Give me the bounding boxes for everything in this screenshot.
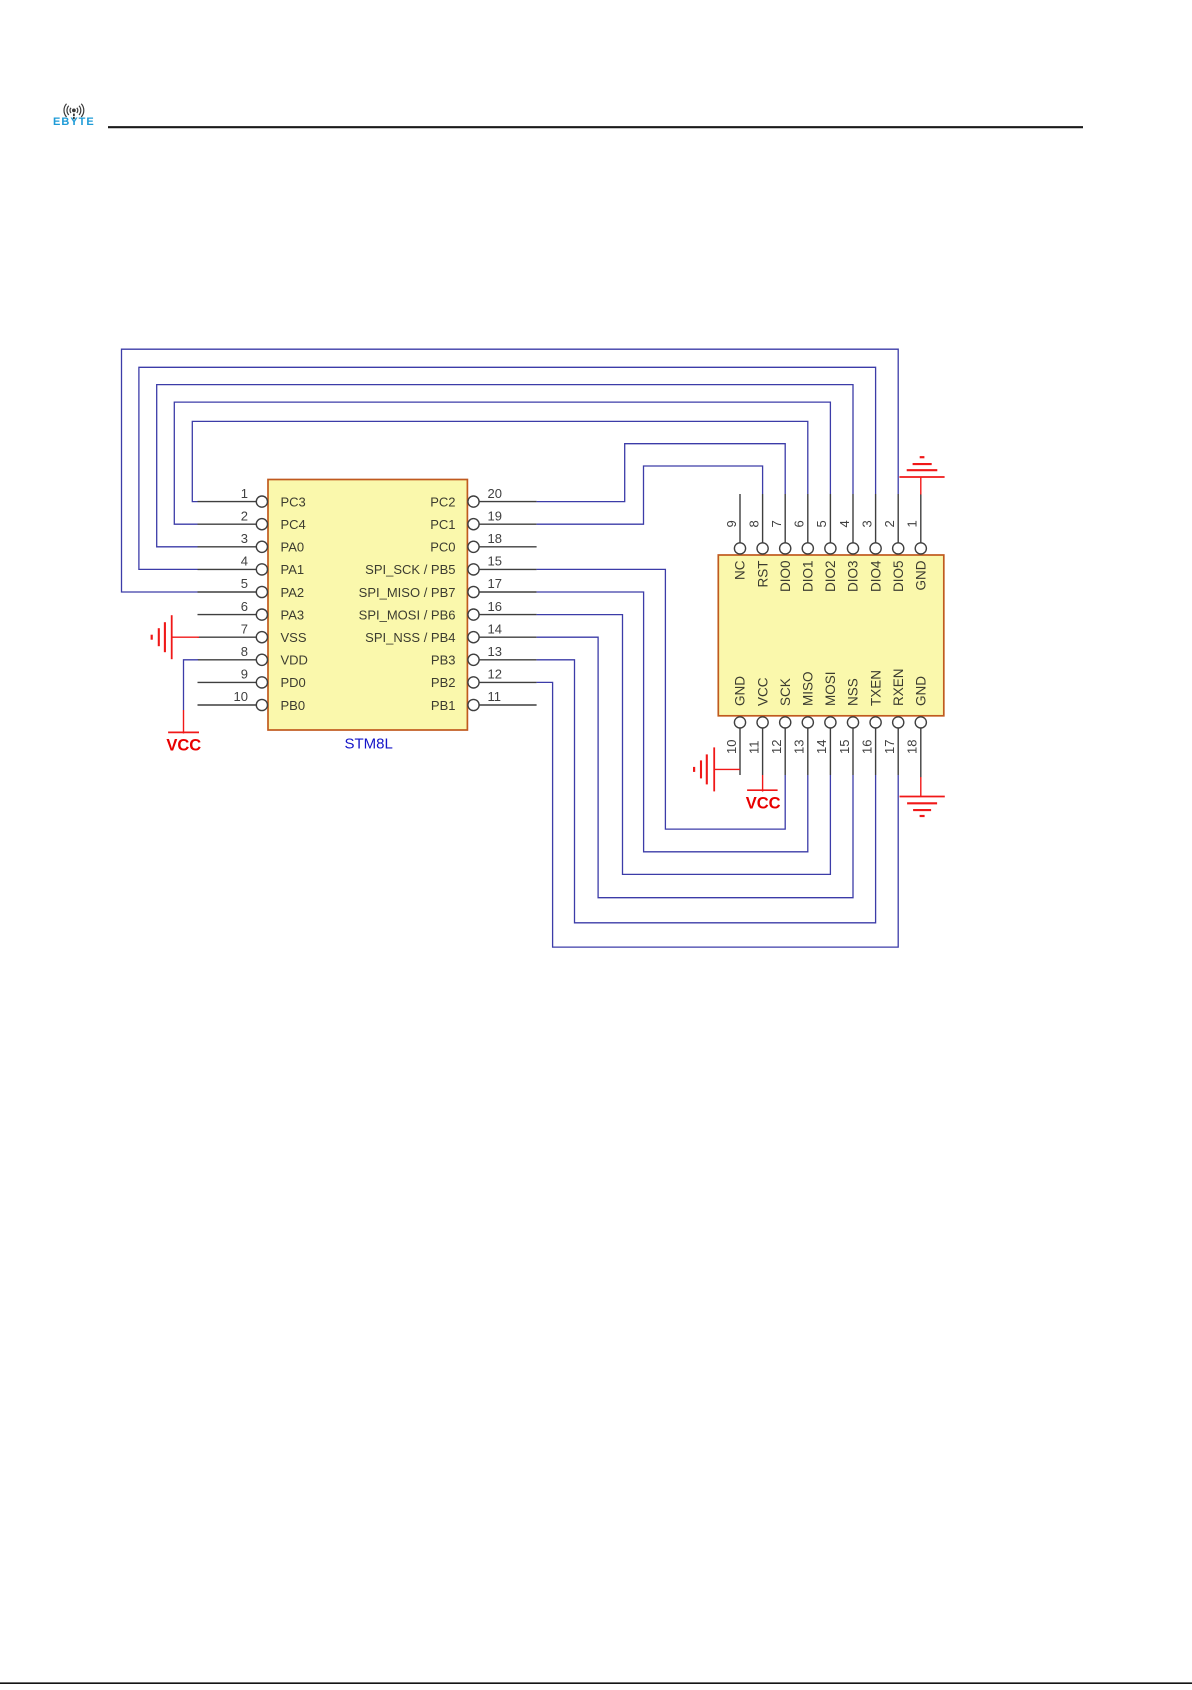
svg-text:PC3: PC3 — [281, 494, 306, 509]
svg-text:1: 1 — [905, 520, 920, 527]
svg-text:13: 13 — [792, 740, 807, 754]
svg-text:NSS: NSS — [846, 678, 861, 706]
U1 pin 10 PB0 (left) — [198, 689, 306, 713]
U1 pin 11 PB1 (right) — [431, 689, 537, 713]
U1 pin 14 PB4 (right) — [365, 621, 536, 645]
wire PA0 to DIO3 — [157, 385, 853, 547]
svg-text:NC: NC — [733, 560, 748, 580]
svg-text:PA2: PA2 — [281, 585, 305, 600]
svg-text:17: 17 — [488, 576, 502, 591]
svg-text:4: 4 — [837, 520, 852, 527]
svg-text:SPI_NSS / PB4: SPI_NSS / PB4 — [365, 630, 455, 645]
svg-text:19: 19 — [488, 508, 502, 523]
wire PC3 to DIO1 — [192, 421, 808, 501]
bottom page rule — [0, 1682, 1192, 1684]
header rule — [108, 126, 1083, 128]
U2 pin 4 DIO3 (top) — [837, 494, 861, 592]
svg-text:PA0: PA0 — [281, 540, 305, 555]
IC U2 RF module body — [718, 555, 944, 716]
U1 pin 12 PB2 (right) — [431, 667, 537, 691]
ground at U2 pin 10 GND (bottom left) — [694, 747, 740, 791]
U2 pin 13 MISO (bottom) — [792, 671, 816, 775]
svg-text:PD0: PD0 — [281, 675, 306, 690]
U2 pin 6 DIO1 (top) — [792, 494, 816, 592]
wire PC2 to DIO0 — [537, 444, 786, 502]
svg-text:TXEN: TXEN — [868, 670, 883, 706]
svg-text:10: 10 — [234, 689, 248, 704]
U2 pin 17 RXEN (bottom) — [882, 668, 906, 775]
U1 pin 15 PB5 (right) — [365, 554, 536, 578]
svg-text:16: 16 — [488, 599, 502, 614]
svg-text:11: 11 — [488, 689, 502, 704]
svg-text:12: 12 — [488, 667, 502, 682]
U1 pin 2 PC4 (left) — [198, 508, 306, 532]
svg-text:16: 16 — [859, 740, 874, 754]
svg-text:DIO4: DIO4 — [868, 560, 883, 592]
svg-text:20: 20 — [488, 486, 502, 501]
ground at U1 VSS pin 7 — [152, 615, 199, 659]
svg-text:DIO5: DIO5 — [891, 561, 906, 593]
U1 pin 3 PA0 (left) — [198, 531, 305, 555]
U1 pin 20 PC2 (right) — [430, 486, 536, 510]
svg-text:PB3: PB3 — [431, 653, 456, 668]
svg-text:PC0: PC0 — [430, 540, 455, 555]
wire SPI_NSS to NSS — [537, 637, 853, 898]
svg-text:14: 14 — [488, 621, 502, 636]
svg-text:EBYTE: EBYTE — [53, 116, 95, 128]
svg-text:DIO1: DIO1 — [801, 561, 816, 593]
svg-text:1: 1 — [241, 486, 248, 501]
ground at U2 pin 18 GND (bottom right) — [900, 775, 945, 816]
svg-text:3: 3 — [859, 520, 874, 527]
svg-text:PB0: PB0 — [281, 698, 306, 713]
U1 pin 9 PD0 (left) — [198, 667, 306, 691]
U2 pin 10 GND (bottom) — [724, 676, 748, 775]
svg-text:PA3: PA3 — [281, 607, 305, 622]
svg-text:PC1: PC1 — [430, 517, 455, 532]
svg-text:6: 6 — [792, 520, 807, 527]
svg-text:5: 5 — [241, 576, 248, 591]
svg-text:PB2: PB2 — [431, 675, 456, 690]
svg-text:DIO0: DIO0 — [778, 561, 793, 593]
svg-text:6: 6 — [241, 599, 248, 614]
svg-text:SPI_MISO / PB7: SPI_MISO / PB7 — [359, 585, 456, 600]
svg-text:SPI_SCK / PB5: SPI_SCK / PB5 — [365, 562, 455, 577]
U1 pin 5 PA2 (left) — [198, 576, 305, 600]
svg-text:VCC: VCC — [746, 794, 781, 812]
svg-text:15: 15 — [837, 740, 852, 754]
svg-text:8: 8 — [746, 520, 761, 527]
svg-text:2: 2 — [882, 520, 897, 527]
svg-text:SCK: SCK — [778, 678, 793, 706]
svg-text:4: 4 — [241, 554, 248, 569]
wire PA2 to DIO5 — [122, 349, 899, 592]
svg-text:GND: GND — [733, 676, 748, 706]
svg-text:7: 7 — [241, 621, 248, 636]
U1 pin 19 PC1 (right) — [430, 508, 536, 532]
svg-text:GND: GND — [914, 560, 929, 590]
U1 pin 8 VDD (left) — [198, 644, 308, 668]
U2 pin 12 SCK (bottom) — [769, 678, 793, 775]
svg-text:18: 18 — [488, 531, 502, 546]
U1 pin 4 PA1 (left) — [198, 554, 305, 578]
U2 pin 2 DIO5 (top) — [882, 494, 906, 592]
U1 pin 7 VSS (left) — [198, 621, 307, 645]
EBYTE logo — [53, 104, 95, 128]
U2 pin 14 MOSI (bottom) — [814, 671, 838, 775]
svg-text:RST: RST — [755, 561, 770, 588]
svg-text:PA1: PA1 — [281, 562, 305, 577]
svg-text:5: 5 — [814, 520, 829, 527]
U2 pin 9 NC (top) — [724, 494, 748, 580]
svg-text:DIO2: DIO2 — [823, 561, 838, 593]
svg-text:18: 18 — [905, 740, 920, 754]
ground at U2 pin 1 GND (top) — [899, 457, 944, 494]
svg-text:14: 14 — [814, 740, 829, 754]
svg-text:VCC: VCC — [166, 736, 201, 754]
wire SPI_MISO to MISO — [537, 592, 808, 852]
svg-text:PC2: PC2 — [430, 494, 455, 509]
svg-text:2: 2 — [241, 508, 248, 523]
wire PB2 to RXEN — [537, 682, 899, 947]
U1 pin 18 PC0 (right) — [430, 531, 536, 555]
U2 pin 11 VCC (bottom) — [746, 677, 770, 775]
svg-text:MISO: MISO — [801, 671, 816, 706]
U2 pin 15 NSS (bottom) — [837, 678, 861, 775]
U1 pin 17 PB7 (right) — [359, 576, 537, 600]
svg-text:RXEN: RXEN — [891, 668, 906, 706]
U2 pin 7 DIO0 (top) — [769, 494, 793, 592]
U2 pin 5 DIO2 (top) — [814, 494, 838, 592]
svg-text:VCC: VCC — [755, 677, 770, 706]
wire PA1 to DIO4 — [139, 367, 876, 569]
wire PC4 to DIO2 — [174, 402, 830, 524]
U2 pin 3 DIO4 (top) — [859, 494, 883, 592]
svg-text:PC4: PC4 — [281, 517, 306, 532]
U2 pin 16 TXEN (bottom) — [859, 670, 883, 775]
svg-text:SPI_MOSI / PB6: SPI_MOSI / PB6 — [359, 607, 456, 622]
U2 pin 8 RST (top) — [746, 494, 770, 588]
svg-text:MOSI: MOSI — [823, 671, 838, 706]
power VCC at U2 pin 11 — [746, 775, 781, 812]
wire SPI_SCK to SCK — [537, 569, 786, 829]
svg-text:8: 8 — [241, 644, 248, 659]
svg-text:GND: GND — [914, 676, 929, 706]
svg-text:11: 11 — [746, 741, 761, 755]
U1 pin 1 PC3 (left) — [198, 486, 306, 510]
svg-text:9: 9 — [724, 520, 739, 527]
svg-text:STM8L: STM8L — [345, 736, 393, 753]
svg-text:3: 3 — [241, 531, 248, 546]
wire SPI_MOSI to MOSI — [537, 615, 831, 875]
wire VDD to VCC — [184, 660, 199, 710]
svg-text:12: 12 — [769, 740, 784, 754]
wire PC1 to RST — [537, 466, 763, 524]
svg-text:7: 7 — [769, 520, 784, 527]
power VCC at U1 VDD pin 8 — [166, 710, 201, 754]
svg-text:9: 9 — [241, 667, 248, 682]
svg-text:10: 10 — [724, 740, 739, 754]
U1 pin 16 PB6 (right) — [359, 599, 537, 623]
U1 pin 13 PB3 (right) — [431, 644, 537, 668]
svg-text:13: 13 — [488, 644, 502, 659]
IC U1 STM8L body — [268, 480, 467, 731]
U2 pin 18 GND (bottom) — [905, 676, 929, 775]
svg-text:VDD: VDD — [281, 653, 308, 668]
wire PB3 to TXEN — [537, 660, 876, 923]
svg-text:17: 17 — [882, 740, 897, 754]
svg-text:VSS: VSS — [281, 630, 307, 645]
svg-text:PB1: PB1 — [431, 698, 456, 713]
U1 pin 6 PA3 (left) — [198, 599, 305, 623]
svg-text:15: 15 — [488, 554, 502, 569]
U2 pin 1 GND (top) — [905, 494, 929, 591]
svg-text:DIO3: DIO3 — [846, 561, 861, 593]
